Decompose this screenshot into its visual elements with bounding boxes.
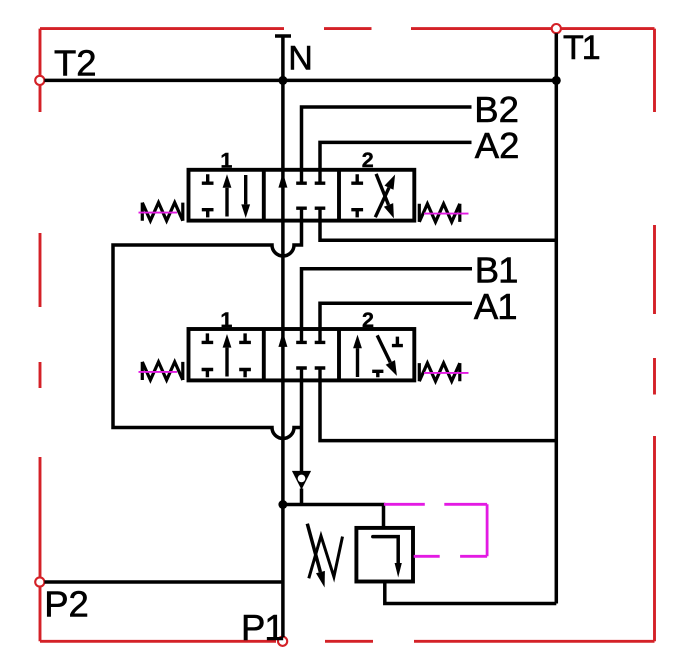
svg-text:A1: A1	[474, 286, 517, 327]
port T1 circle	[552, 24, 561, 33]
DV2 right box: blocked port bottom-centre	[372, 371, 383, 377]
DV1 right spring centreline (magenta)	[424, 213, 469, 215]
DV2 left box: blocked port bottom-left	[202, 370, 214, 378]
svg-text:P1: P1	[241, 607, 284, 648]
wire port A1	[320, 303, 472, 329]
port N symbol (top cap)	[275, 36, 291, 80]
enclosure border, left side	[39, 29, 42, 642]
check valve CV1 (seat + ball)	[292, 471, 311, 490]
DV1 right box: blocked port symbol bottom-left	[351, 210, 363, 218]
DV1 right return spring	[419, 204, 460, 222]
DV1 right box: crossed flow arrow (up-right)	[375, 188, 389, 218]
DV2 centre box: neutral through-flow arrowhead	[278, 332, 287, 347]
DV2 left box: blocked port top-right	[239, 333, 251, 342]
directional valve DV1 (upper, section 2) body (3-position envelope)	[189, 170, 415, 221]
svg-text:1: 1	[220, 308, 232, 332]
enclosure border, right side	[653, 29, 656, 642]
DV2 centre box: blocked port bottom-right	[315, 368, 326, 380]
junction dot inlet/relief branch	[278, 500, 287, 509]
junction dot N/tank line	[278, 76, 287, 85]
DV2 left box: centre up-flow arrow	[225, 348, 228, 377]
wire valve1 tank return to T1 line	[320, 221, 556, 241]
DV2 right box: up-flow arrow	[356, 348, 359, 377]
enclosure border, bottom side	[40, 640, 655, 643]
wire T1 vertical	[555, 33, 559, 603]
wire P2 inlet line	[44, 580, 283, 584]
svg-text:N: N	[288, 39, 313, 77]
DV2 right box: diagonal flow arrow	[377, 335, 390, 362]
svg-text:2: 2	[362, 148, 374, 172]
DV1 centre box: neutral through-flow arrowhead	[278, 173, 287, 188]
svg-text:2: 2	[362, 308, 374, 332]
relief valve RV1 body	[356, 528, 413, 582]
wire carryover loop with crossover hops	[113, 221, 302, 439]
directional valve DV2 (lower, section 1) body (3-position envelope)	[189, 329, 415, 380]
wire neutral gallery N vertical	[281, 80, 285, 637]
DV1 centre box: blocked port bottom-right	[315, 208, 326, 220]
relief valve RV1 pilot line (magenta dashed)	[384, 504, 487, 556]
DV1 left box: up-flow arrow	[225, 188, 228, 217]
relief valve RV1 adjustable spring	[309, 536, 343, 578]
DV2 left box: blocked port top-left	[202, 333, 214, 342]
port T2 circle	[35, 76, 44, 85]
svg-text:A2: A2	[475, 125, 520, 166]
svg-text:T2: T2	[54, 42, 97, 83]
relief valve RV1 internal flow path arrow	[373, 537, 398, 563]
wire port B2	[302, 107, 472, 170]
wire valve2 feed down to check valve	[300, 380, 304, 471]
port P1 circle	[278, 637, 287, 646]
DV2 left box: blocked port bottom-right	[239, 370, 251, 378]
wire port A2	[320, 142, 472, 169]
DV2 right return spring	[419, 363, 460, 381]
svg-text:T1: T1	[563, 29, 600, 67]
wire inlet gallery to relief valve	[283, 505, 384, 528]
DV1 centre box: blocked port bottom-left	[296, 208, 307, 220]
junction dot T1/tank line	[552, 76, 561, 85]
relief valve RV1 outlet wire to tank	[385, 582, 557, 604]
DV1 left return spring	[142, 203, 183, 221]
DV1 centre box: blocked work port A (top)	[315, 170, 326, 183]
relief valve RV1 adjustment arrow	[307, 524, 320, 572]
DV1 centre box: blocked work port B (top)	[296, 170, 307, 183]
svg-text:B2: B2	[474, 89, 519, 130]
DV1 left box: blocked port symbol bottom-left	[202, 210, 214, 218]
DV2 left return spring	[142, 362, 183, 380]
svg-text:P2: P2	[44, 584, 89, 625]
DV1 left spring centreline (magenta)	[139, 212, 178, 214]
wire port B1	[302, 269, 473, 329]
DV2 centre box: blocked work port A (top)	[315, 329, 326, 342]
DV1 right box: crossed flow arrow (down-right)	[376, 174, 388, 205]
DV2 left spring centreline (magenta)	[139, 371, 178, 373]
DV1 left box: down-flow arrow	[244, 175, 247, 204]
DV1 left box: blocked port symbol top-left	[202, 174, 214, 183]
DV2 right box: blocked port top-right	[392, 337, 403, 346]
svg-text:1: 1	[220, 148, 232, 172]
port P2 circle	[35, 577, 44, 586]
DV1 right box: blocked port symbol top-left	[351, 174, 363, 183]
DV2 centre box: blocked work port B (top)	[296, 329, 307, 342]
wire valve2 tank return to T1 line	[320, 380, 556, 440]
DV2 right spring centreline (magenta)	[424, 372, 469, 374]
DV2 centre box: blocked port bottom-left	[296, 368, 307, 380]
wire tank line T2 to T1	[44, 79, 556, 83]
svg-text:B1: B1	[475, 250, 518, 291]
wire below check valve	[300, 489, 304, 505]
